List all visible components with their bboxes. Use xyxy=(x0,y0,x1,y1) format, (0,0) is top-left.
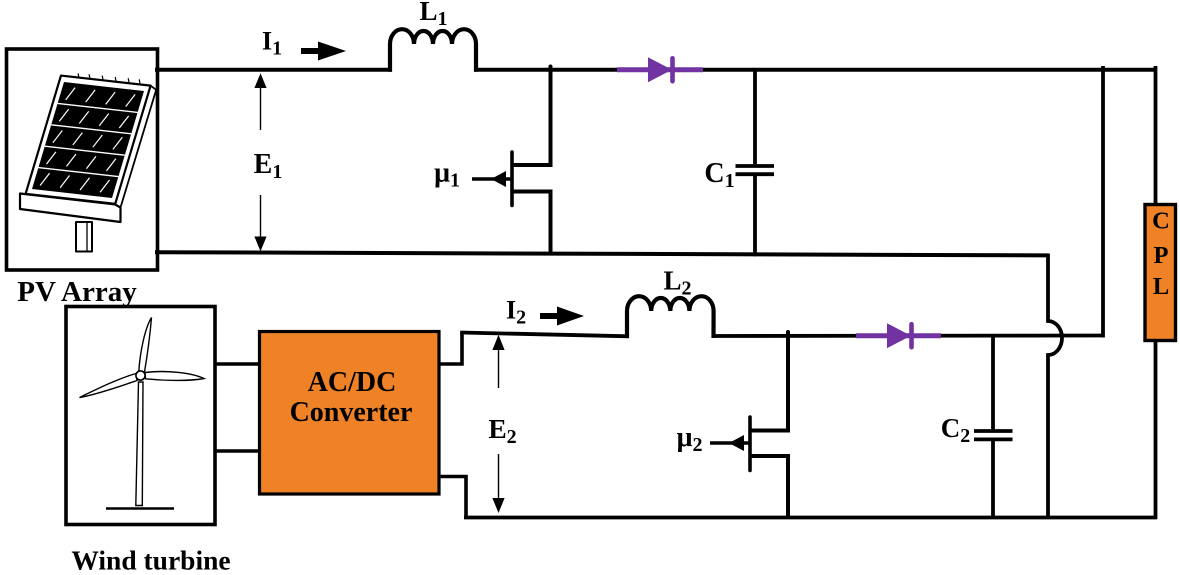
turbine blade up xyxy=(139,318,152,373)
capacitor C2 upper lead xyxy=(991,334,995,429)
wind turbine drawing xyxy=(80,318,205,509)
current arrow I1 xyxy=(301,42,346,61)
turbine tower xyxy=(136,382,143,506)
wire: right edge down to CPL xyxy=(1154,66,1158,206)
CPL block xyxy=(1145,205,1176,341)
diode D2 purple wire xyxy=(856,333,941,338)
transistor μ1 source tab xyxy=(512,190,553,194)
turbine base xyxy=(106,507,174,510)
diode D2 triangle xyxy=(887,323,911,348)
turbine hub xyxy=(136,371,145,380)
wire: vertical joining converter-2 output to top rail xyxy=(1101,66,1105,338)
diode D1 triangle xyxy=(648,57,672,82)
transistor μ2 source vertical wire xyxy=(786,456,790,519)
inductor L2 xyxy=(627,296,714,338)
svg-text:C: C xyxy=(1152,208,1170,235)
Wind turbine box xyxy=(66,307,215,525)
wire: top rail from L1 to diode D1 xyxy=(474,68,619,72)
PV panel drawing xyxy=(20,74,156,252)
wire: converter 2 top rail left of L2 xyxy=(460,333,629,337)
AC/DC converter block xyxy=(260,332,440,495)
turbine blade left xyxy=(80,374,138,398)
capacitor C2 plates xyxy=(974,431,1013,439)
voltage arrow E2 xyxy=(492,335,504,513)
turbine blade right xyxy=(145,372,204,381)
capacitor C1 lower lead xyxy=(753,176,757,256)
diode D1 cathode bar xyxy=(670,58,675,81)
PV panel front band xyxy=(20,194,121,223)
capacitor C1 plates xyxy=(736,166,775,174)
transistor μ2 source tab xyxy=(750,454,790,458)
transistor μ2 gate wire with arrow xyxy=(710,435,750,451)
voltage arrow E1 xyxy=(254,73,266,251)
wire: vertical drop with hop over converter-2 output xyxy=(1048,254,1062,520)
wire: wind box to converter upper xyxy=(215,362,261,366)
svg-text:Wind turbine: Wind turbine xyxy=(71,545,230,575)
transistor μ2 drain vertical wire xyxy=(786,332,790,431)
wire: top rail from diode to right corner xyxy=(703,68,1156,72)
PV panel side face xyxy=(115,86,156,208)
PV panel top tick marks xyxy=(78,74,140,84)
svg-text:PV Array: PV Array xyxy=(17,276,137,308)
wire: converter 2 top rail right of L2 xyxy=(712,334,1104,338)
transistor μ1 channel bar xyxy=(510,152,514,206)
svg-text:L: L xyxy=(1153,273,1169,300)
svg-text:AC/DC: AC/DC xyxy=(308,367,397,398)
transistor μ2 drain tab xyxy=(750,429,790,433)
wire: wind box to converter lower xyxy=(215,449,261,453)
label CPL xyxy=(1152,208,1170,301)
transistor μ1 drain vertical wire xyxy=(549,67,553,166)
wire: top rail from PV to L1 xyxy=(155,68,392,72)
svg-text:P: P xyxy=(1154,242,1169,269)
transistor μ1 source vertical wire xyxy=(549,192,553,256)
inductor L1 xyxy=(390,29,476,72)
capacitor C1 upper lead xyxy=(753,70,757,165)
diode D1 purple wire xyxy=(617,67,703,72)
PV Array box xyxy=(7,49,158,270)
wire: bottom rail of converter 2 xyxy=(464,516,1157,520)
PV panel leg xyxy=(76,222,92,252)
capacitor C2 lower lead xyxy=(991,441,995,519)
diode D2 cathode bar xyxy=(909,324,914,347)
wire: converter to step-down corner (lower) xyxy=(438,477,466,518)
wire: CPL bottom to bottom rail xyxy=(1154,341,1158,520)
wire: converter to step-up corner (upper) xyxy=(438,333,462,365)
transistor μ1 drain tab xyxy=(512,163,553,167)
wire: bottom rail of converter 1 xyxy=(155,252,1048,255)
transistor μ2 channel bar xyxy=(748,417,752,471)
transistor μ1 gate wire with arrow xyxy=(472,171,512,187)
svg-text:Converter: Converter xyxy=(290,397,413,428)
current arrow I2 xyxy=(540,307,584,326)
